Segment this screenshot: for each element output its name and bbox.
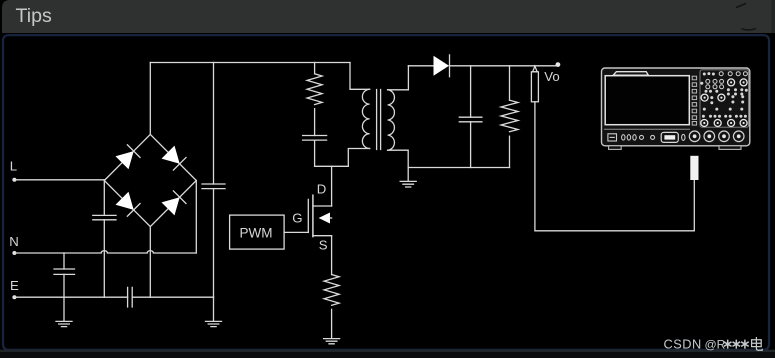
transformer T1 core <box>377 90 381 150</box>
probe tip arrow at Vo <box>533 66 538 72</box>
node L terminal dot <box>12 178 16 182</box>
node N terminal dot <box>12 251 16 255</box>
wire N to C4 branch <box>63 253 65 269</box>
capacitor C1 line-to-earth <box>93 215 116 219</box>
scope screen side buttons <box>692 76 696 125</box>
wire snubber branch from rail <box>314 63 316 74</box>
wire source down to R3 <box>331 236 333 275</box>
window bottom strip <box>0 350 775 358</box>
scope small knob right of USB <box>682 134 685 140</box>
wire primary top from rail <box>350 63 370 90</box>
wire gate lead <box>284 231 308 233</box>
svg-text:Vo: Vo <box>544 69 559 84</box>
svg-text:E: E <box>10 278 19 293</box>
scope screen <box>605 76 689 125</box>
capacitor C3 series in E rail <box>128 287 133 307</box>
wire R3 to ground <box>331 309 333 338</box>
diode D3 bridge bottom-left <box>116 192 141 217</box>
svg-text:Tips: Tips <box>16 5 52 27</box>
resistor R2 load <box>501 100 518 132</box>
svg-text:N: N <box>9 234 19 249</box>
wire secondary bottom rail <box>408 167 509 169</box>
transistor Q1 MOSFET gate bar <box>307 199 309 232</box>
svg-text:G: G <box>292 210 302 225</box>
capacitor C5 snubber <box>303 136 327 141</box>
svg-text:D: D <box>317 181 327 196</box>
probe connector at scope <box>690 156 698 180</box>
wire output cap branch <box>470 66 472 117</box>
PWM controller box U1 <box>230 215 285 249</box>
resistor R3 source sense <box>324 275 339 306</box>
wire output rail left of diode <box>408 65 433 67</box>
wire C1 to E rail <box>103 220 105 297</box>
wire bulk cap branch lower <box>213 189 215 298</box>
wire C5 down and right to drain node <box>315 140 349 166</box>
transformer T1 secondary winding <box>388 90 395 150</box>
capacitor C6 output <box>459 117 482 122</box>
scope cal connector icon <box>608 134 617 141</box>
transistor Q1 source stub <box>313 235 332 237</box>
wire R1 to C5 <box>314 109 316 136</box>
wire C6 to bottom rail <box>470 122 472 168</box>
diode D5 output rectifier <box>434 55 450 77</box>
scope body <box>602 68 750 146</box>
node Vo dot <box>556 62 561 67</box>
diode D2 bridge top-right <box>162 146 187 171</box>
wire secondary bottom <box>388 150 409 167</box>
scope bottom row divider <box>604 128 690 130</box>
scope feet <box>609 146 622 150</box>
svg-text:S: S <box>319 237 328 252</box>
wire R2 to bottom rail <box>509 136 511 167</box>
wire load branch from rail <box>509 66 511 100</box>
wire bridge right vertex down to N rail <box>195 181 197 254</box>
title bar <box>2 0 775 33</box>
wire probe cable down right and up <box>535 102 694 231</box>
wire output rail right of diode <box>450 65 558 67</box>
wire bridge left vertex down to C1 <box>103 181 105 216</box>
ground symbol at bulk cap <box>206 297 222 326</box>
svg-text:@R: @R <box>705 338 726 352</box>
svg-text:PWM: PWM <box>240 225 273 240</box>
scope small buttons row <box>622 135 655 140</box>
wire bridge top vertex to DC rail <box>149 63 151 135</box>
wire top DC rail <box>150 62 350 64</box>
capacitor C4 N-to-earth <box>54 269 75 274</box>
transistor Q1 drain stub <box>313 205 332 207</box>
scope knobs and buttons <box>700 72 748 118</box>
scope BNC connectors <box>689 131 744 142</box>
diode D1 bridge top-left <box>116 145 141 170</box>
node E terminal dot <box>12 295 16 299</box>
ground symbol at C4 <box>56 321 72 326</box>
resistor R1 snubber <box>307 74 322 105</box>
diode D4 bridge bottom-right <box>162 191 187 216</box>
watermark <box>664 337 763 352</box>
wire C4 to E rail and below <box>63 274 65 320</box>
ground symbol at R3 <box>324 339 340 344</box>
wire L to bridge left vertex <box>14 179 104 182</box>
svg-text:L: L <box>10 159 17 174</box>
transistor Q1 body arrow <box>319 213 332 224</box>
ground symbol secondary <box>400 168 416 188</box>
wire N rail with hops over verticals <box>14 251 196 253</box>
wire primary bottom to drain vertical <box>348 149 369 167</box>
scope handle <box>613 72 648 76</box>
capacitor C2 bulk <box>202 184 225 189</box>
wire drain up to primary <box>331 166 333 206</box>
oscilloscope <box>602 68 750 149</box>
wire bulk cap branch upper <box>213 63 215 185</box>
transistor Q1 channel bar <box>312 195 314 236</box>
bridge rectifier diamond wires <box>104 134 196 226</box>
wire E rail right segment <box>132 296 213 298</box>
wire E rail left segment <box>14 296 127 298</box>
svg-text:CSDN: CSDN <box>664 337 702 352</box>
wire secondary top to output rail <box>388 66 409 90</box>
wire bridge bottom vertex down to E rail <box>149 227 151 298</box>
probe body <box>531 72 538 102</box>
scope knob panel frame <box>700 70 749 127</box>
scope USB port <box>661 132 678 142</box>
transformer T1 primary winding <box>362 89 369 148</box>
